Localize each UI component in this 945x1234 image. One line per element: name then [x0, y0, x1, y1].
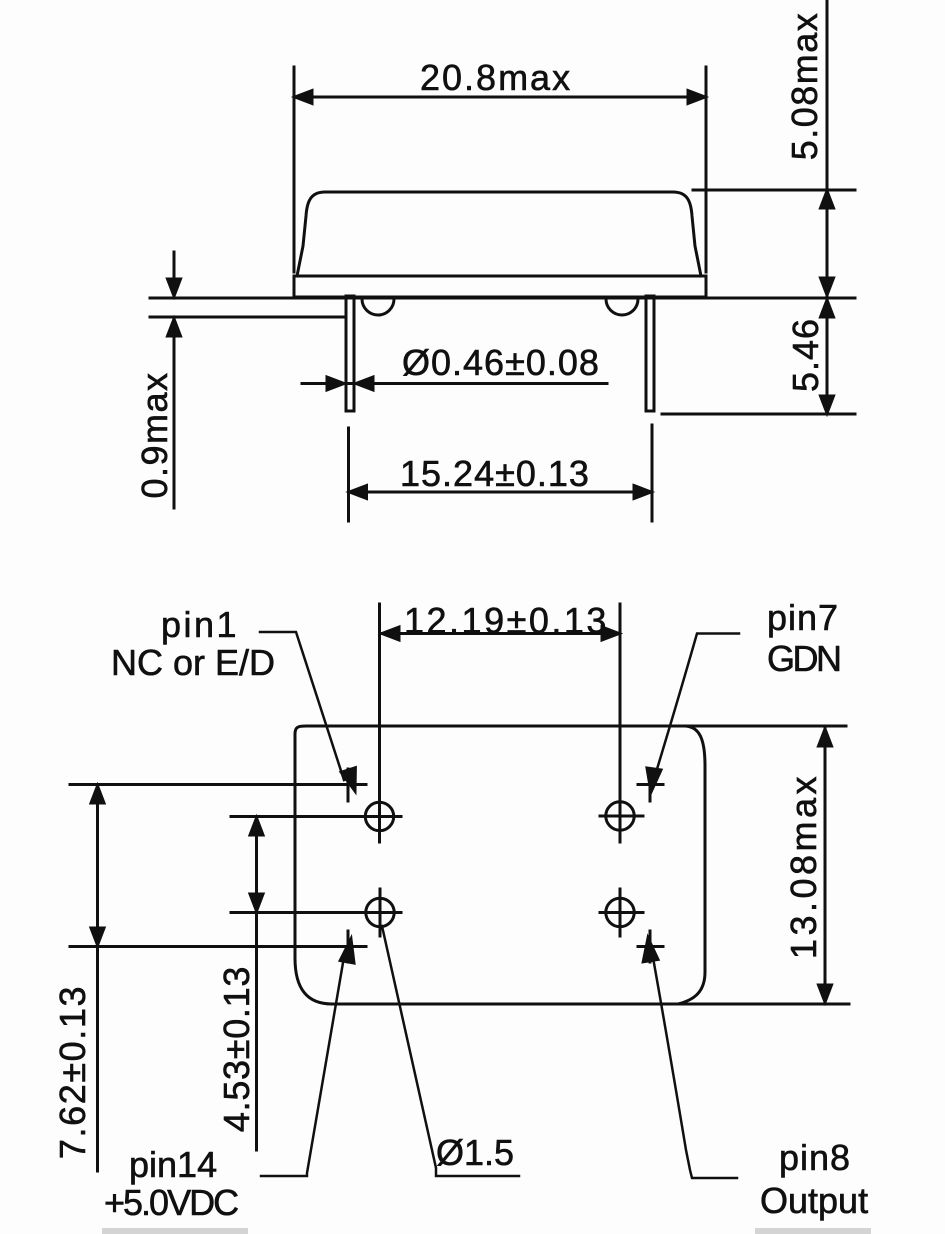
dim 20.8max dimension line: [294, 96, 706, 99]
oscillator base flange (side view): [294, 276, 706, 297]
right pin (side view): [646, 296, 654, 411]
hole pin2 cross vertical / dim 12.19 left extension: [378, 604, 381, 842]
svg-text:+5.0VDC: +5.0VDC: [104, 1182, 238, 1223]
dim 20.8max extension line right: [705, 67, 708, 272]
dim 5.08max dimension line: [826, 0, 829, 296]
lower reference line: [150, 316, 344, 319]
left solder bump arc: [362, 299, 394, 315]
left pin (side view): [346, 296, 354, 411]
svg-text:0.9max: 0.9max: [134, 371, 175, 498]
seating plane line: [150, 297, 855, 300]
dim 12.19 arrow right: [602, 627, 619, 640]
right solder bump arc: [606, 299, 638, 315]
dim 5.08max extension line (case top): [693, 189, 855, 192]
node pin8 cross marker horizontal: [638, 945, 663, 948]
hole pin9 circle (bottom-right): [606, 898, 634, 926]
hole pin6 cross horizontal: [600, 815, 643, 818]
leader pin8: [652, 952, 737, 1178]
dim 13.08max bottom extension line: [678, 1003, 849, 1006]
leader pin14: [261, 951, 345, 1176]
dim 0.9max arrow down: [168, 279, 181, 296]
bottom view package outline: [295, 726, 705, 1004]
dim 5.46 dimension line: [826, 296, 829, 414]
hole pin6 circle (top-right): [606, 802, 634, 830]
dim 20.8max arrow right: [688, 91, 705, 104]
dim 7.62 arrow up: [91, 786, 104, 803]
pin14 row reference line / dim 7.62 bottom extension: [70, 945, 366, 948]
dim 20.8max extension line left: [293, 67, 296, 272]
dim 0.9max dimension line upper segment: [173, 252, 176, 297]
svg-text:Ø0.46±0.08: Ø0.46±0.08: [402, 342, 600, 383]
pin end reference line: [662, 413, 855, 416]
dim 15.24 dimension line: [349, 491, 653, 494]
svg-text:pin7: pin7: [767, 597, 839, 638]
dim 0.9max dimension line lower segment: [173, 318, 176, 508]
node pin7 cross marker: [649, 769, 652, 801]
dim 13.08max arrow down: [819, 985, 832, 1002]
ghost text artifact bottom-left: [102, 1228, 248, 1234]
leader pin7: [654, 634, 739, 780]
dim 4.53 dimension line: [255, 818, 258, 1150]
hole pin2 cross horizontal / dim 4.53 top extension: [231, 815, 401, 818]
dim 0.9max arrow up: [168, 319, 181, 336]
dim 12.19 dimension line: [381, 632, 620, 635]
svg-text:pin8: pin8: [779, 1137, 851, 1178]
dim 5.08max arrow down: [821, 278, 834, 295]
dim 13.08max dimension line: [824, 728, 827, 1003]
dim 15.24 extension line right: [651, 425, 654, 521]
dim 5.08max arrow up: [821, 191, 834, 208]
dim 15.24 extension line left: [347, 428, 350, 521]
hole pin6 cross vertical / dim 12.19 right extension: [619, 604, 622, 842]
svg-text:5.08max: 5.08max: [784, 12, 825, 161]
dim 12.19 arrow left: [382, 627, 399, 640]
svg-text:Output: Output: [760, 1180, 868, 1221]
hole pin9 cross horizontal: [600, 911, 643, 914]
node pin7 leader arrowhead: [647, 768, 661, 792]
node pin1 leader arrowhead: [341, 768, 355, 791]
hole pin13 cross vertical: [379, 889, 382, 936]
hole pin9 cross vertical: [619, 889, 622, 936]
svg-text:20.8max: 20.8max: [420, 57, 572, 98]
dim 4.53 bottom extension line: [231, 911, 401, 914]
node pin14 cross marker horizontal: [338, 945, 366, 948]
dim pin diameter leader line: [302, 382, 607, 385]
leader diameter 1.5: [382, 926, 519, 1176]
dim 4.53 arrow up: [250, 818, 263, 835]
dim 7.62 dimension line: [96, 786, 99, 1171]
dim 13.08max arrow up: [819, 729, 832, 746]
svg-text:4.53±0.13: 4.53±0.13: [216, 966, 257, 1132]
svg-text:5.46: 5.46: [785, 318, 826, 392]
pin1 row reference line / dim 7.62 top extension: [70, 783, 366, 786]
svg-text:12.19±0.13: 12.19±0.13: [404, 600, 609, 641]
dim pin diameter arrow left: [356, 377, 373, 390]
node pin14 leader arrowhead: [340, 939, 354, 963]
dim 7.62 arrow down: [91, 928, 104, 945]
svg-text:15.24±0.13: 15.24±0.13: [400, 453, 590, 494]
svg-text:7.62±0.13: 7.62±0.13: [52, 985, 93, 1159]
svg-text:pin14: pin14: [129, 1144, 217, 1185]
dim 5.46 arrow up: [821, 300, 834, 317]
svg-text:pin1: pin1: [161, 604, 239, 645]
node pin8 cross marker: [649, 931, 652, 962]
svg-text:Ø1.5: Ø1.5: [436, 1132, 514, 1173]
svg-text:NC or E/D: NC or E/D: [111, 642, 275, 683]
dim 15.24 arrow right: [634, 486, 651, 499]
dim 20.8max arrow left: [295, 91, 312, 104]
node pin14 cross marker: [347, 931, 350, 962]
ghost text artifact bottom-right: [755, 1228, 871, 1234]
svg-text:GDN: GDN: [767, 638, 840, 679]
dim 15.24 arrow left: [350, 486, 367, 499]
dim 5.46 arrow down: [821, 396, 834, 413]
hole pin13 circle (bottom-left): [366, 898, 394, 926]
svg-text:13.08max: 13.08max: [783, 773, 824, 959]
dim 4.53 arrow down: [250, 894, 263, 911]
leader pin1: [260, 632, 344, 780]
dim pin diameter arrow right: [327, 377, 344, 390]
hole pin2 circle (top-left): [365, 802, 393, 830]
node pin7 cross marker horizontal: [638, 783, 663, 786]
node pin8 leader arrowhead: [643, 938, 658, 962]
oscillator case outline (side view): [297, 192, 701, 276]
node pin1 cross marker: [347, 769, 350, 801]
dim 13.08max top extension line: [686, 725, 846, 728]
